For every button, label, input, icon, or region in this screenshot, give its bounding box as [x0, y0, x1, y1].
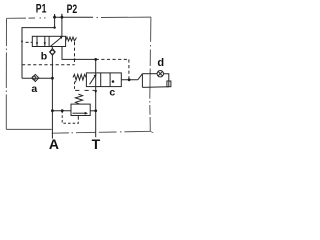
valve c body	[86, 73, 121, 87]
enclosure border bottom right	[124, 130, 150, 133]
arrows on port stubs	[54, 14, 56, 16]
wire c outlet	[121, 79, 138, 81]
svg-text:T: T	[92, 136, 101, 150]
valve b arrow on right diagonal head	[60, 36, 63, 39]
arrows on b left cell paths	[36, 42, 38, 45]
valve b right cell diagonal	[51, 37, 62, 46]
wire c top port	[95, 59, 97, 73]
relief spring	[75, 94, 82, 104]
wire A line	[51, 78, 53, 138]
flow arrow on T line	[94, 90, 97, 93]
valve b pilot dash left	[26, 41, 29, 43]
vent dash c spring down	[75, 81, 77, 84]
wire valve b bottom port 1	[51, 47, 53, 49]
d loop left vertical	[141, 74, 143, 88]
svg-text:d: d	[157, 57, 164, 69]
valve b body	[32, 36, 65, 46]
wire P2 drop to valve b	[61, 17, 63, 36]
wire valve b bottom port 2	[62, 47, 96, 60]
svg-text:A: A	[49, 136, 59, 150]
wire check b to junction	[51, 55, 53, 78]
valve b left cell path 2	[44, 36, 46, 46]
svg-text:P2: P2	[67, 2, 78, 16]
vent dash to T line	[75, 89, 79, 91]
pilot dash from P1 line	[22, 64, 75, 66]
check valve a ball	[32, 76, 36, 80]
port P1 stub	[54, 14, 56, 17]
wire P1 drop	[22, 17, 55, 78]
pilot dash vertical to b spring	[74, 42, 76, 65]
svg-text:c: c	[109, 86, 115, 98]
pilot dash b bottom to c	[96, 58, 129, 60]
junction dots	[53, 16, 56, 19]
relief valve box	[71, 104, 90, 115]
wire T line	[95, 73, 97, 137]
wire check a line	[22, 77, 52, 79]
plug box on d drop	[167, 81, 171, 87]
relief pilot dash	[62, 111, 78, 124]
enclosure border left	[5, 18, 7, 46]
valve c spring	[73, 74, 86, 80]
top wire P1-P2 rail	[53, 16, 93, 18]
enclosure border top	[7, 17, 26, 19]
relief outlet wire	[90, 110, 96, 112]
relief inlet wire	[52, 110, 71, 112]
check valve a diamond	[32, 74, 39, 81]
enclosure border bottom left	[6, 128, 52, 130]
d loop top wire	[142, 73, 157, 75]
enclosure border right	[150, 17, 152, 42]
svg-text:b: b	[41, 50, 47, 62]
valve b left cell path 1	[36, 36, 38, 46]
valve b spring	[66, 37, 77, 41]
valve c left cell diagonal	[90, 76, 96, 85]
jog diagonal to d loop	[138, 74, 143, 80]
svg-text:P1: P1	[36, 2, 47, 16]
gauge d circle	[157, 71, 163, 77]
flow arrow on P1 drop	[21, 41, 23, 44]
port P2 stub	[61, 14, 63, 17]
valve c right cell dot	[112, 80, 115, 83]
d loop right wire	[164, 74, 169, 87]
check valve b ball	[51, 50, 55, 54]
relief internal arrow	[73, 112, 86, 114]
d loop bottom wire	[142, 86, 168, 89]
relief pilot stub	[77, 116, 79, 120]
svg-text:a: a	[31, 83, 37, 95]
check valve b diamond	[50, 49, 56, 56]
